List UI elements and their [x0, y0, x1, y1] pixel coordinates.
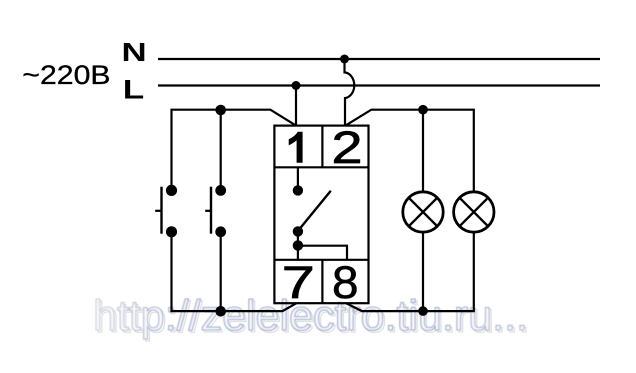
SB2 bottom contact dot [215, 226, 226, 237]
wire from terminal 8 diagonal + bottom rail right + lamp2 riser [346, 232, 474, 311]
junction dot lamps top [418, 105, 428, 115]
divider between terminals 7 and 8 [321, 260, 323, 303]
svg-text:L: L [123, 74, 144, 104]
wire N line [158, 58, 600, 60]
junction dot lamps bottom [418, 306, 428, 316]
SB1 bottom contact dot [166, 226, 177, 237]
wire lamp1 vertical bottom [422, 232, 424, 311]
lamp EL1 cross [409, 198, 438, 227]
lamp EL1 circle [403, 192, 443, 232]
relay contact: wire from lower dot to terminal 8 [298, 246, 347, 260]
wire button2 vertical upper segment [220, 110, 222, 190]
relay contact: vertical wire to terminal 7 [297, 231, 299, 259]
junction dot top-left horizontal [215, 105, 226, 116]
SB2 top contact dot [215, 185, 226, 196]
SB1 top contact dot [166, 185, 177, 196]
terminal row bottom divider line [274, 259, 368, 261]
svg-text:~220В: ~220В [22, 60, 110, 90]
lamp EL2 cross [460, 198, 489, 227]
SB2 actuator tick [205, 210, 211, 212]
wire button2 vertical lower segment [220, 232, 222, 311]
SB1 actuator tick [155, 210, 161, 212]
wire from terminal 2 diagonal + top-right horizontal + lamp2 drop [346, 110, 474, 192]
terminal 1 label [289, 132, 303, 163]
junction dot on N line [340, 55, 349, 64]
wire from L junction down to terminal 1 [295, 86, 297, 126]
junction dot on L line [292, 81, 301, 90]
junction dot bottom rail left [215, 306, 226, 317]
relay contact: stub from terminal 1 [297, 167, 299, 186]
SB2 actuator bar [210, 187, 212, 234]
terminal row top divider line [274, 166, 368, 168]
svg-text:N: N [122, 37, 147, 67]
svg-text:7: 7 [282, 258, 315, 308]
relay contact: fixed contact dot [293, 185, 303, 195]
wire L line [158, 84, 600, 86]
relay module K1 outline [274, 126, 368, 304]
push button SB2 [205, 185, 226, 237]
divider between terminals 1 and 2 [321, 126, 323, 168]
watermark blue text http://zelelectro.tiu.ru... [93, 292, 528, 340]
relay contact: lower dot [293, 240, 303, 250]
wire left rail lower + bottom rail left to terminal 7 [172, 232, 297, 311]
lamp EL2 circle [454, 192, 494, 232]
watermark ghost emboss text [95, 294, 530, 342]
wire lamp1 vertical top [422, 110, 424, 192]
wire from N junction with hop over L to terminal 2 [345, 59, 355, 126]
svg-text:8: 8 [332, 257, 359, 307]
relay contact: switch arm (open) [300, 191, 331, 229]
relay contact: pivot dot [293, 226, 303, 236]
push button SB1 [155, 185, 177, 238]
svg-text:2: 2 [331, 122, 362, 173]
SB1 actuator bar [160, 187, 162, 234]
wire left rail upper + top horizontal to terminal 1 [172, 110, 297, 191]
